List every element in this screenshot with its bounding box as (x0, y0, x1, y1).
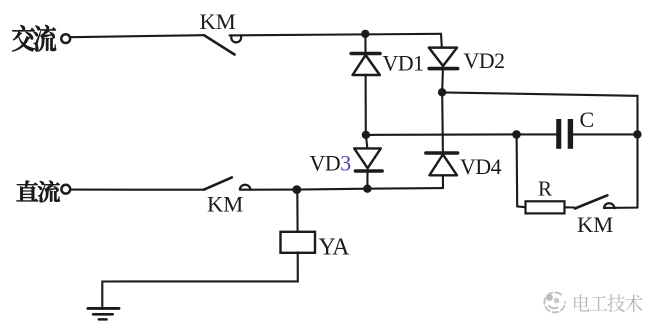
wire: node B right to top-right corner (442, 92, 637, 95)
switch KM top: fixed contact (hook below wire) (231, 35, 241, 42)
svg-text:YA: YA (319, 234, 351, 260)
node A (top of VD1) (361, 30, 369, 38)
label 直流 (17, 181, 60, 203)
switch KM top: blade (204, 35, 235, 54)
coil YA (box) (281, 232, 316, 253)
svg-text:VD4: VD4 (460, 155, 502, 179)
watermark text 电工技术 (574, 294, 642, 312)
wire: DC terminal to switch KM bottom-left (71, 189, 204, 191)
wire: DC rail from YA node to VD4 corner (297, 188, 443, 190)
node: VD3 top on middle wire (362, 131, 370, 139)
wire: switch KM top to corner above VD2 (230, 34, 442, 36)
node: capacitor-left / R branch (512, 130, 521, 139)
resistor R (box) (526, 201, 565, 213)
wire: VD3 cathode down to DC rail node (366, 171, 368, 189)
wire: VD3 node down to VD3 anode (366, 135, 367, 148)
wire: VD4 anode down to DC rail corner (442, 176, 444, 189)
svg-text:KM: KM (577, 212, 613, 237)
wire: YA node down to coil (296, 190, 298, 233)
svg-text:KM: KM (207, 192, 243, 217)
wire: AC terminal to switch KM top (71, 35, 204, 37)
wire: middle rail from VD3 node to capacitor node (366, 133, 517, 136)
svg-text:R: R (538, 177, 552, 201)
diode VD2 (triangle apex down, cathode bar bottom) (429, 48, 457, 66)
svg-text:VD3: VD3 (310, 152, 352, 176)
diode VD1 (cathode bar top, triangle apex up) (351, 52, 380, 56)
diode VD4 (cathode bar top, triangle apex up) (426, 151, 458, 155)
node B (VD2/VD4 cathode junction) (438, 88, 446, 96)
svg-text:C: C (580, 107, 595, 132)
watermark logo (544, 292, 565, 312)
wire: resistor to switch (565, 206, 575, 208)
label 交流 (12, 25, 56, 51)
node: VD3 bottom on DC rail (363, 185, 371, 193)
wire: VD1 anode down to middle node (365, 75, 367, 135)
wire: YA coil down, left, down to ground (102, 252, 297, 307)
switch KM bottom-left: fixed contact (arc above wire) (240, 185, 250, 190)
wire: VD2 cathode to node B (441, 69, 444, 93)
switch KM bottom-right: fixed contact (arc above wire) (604, 203, 614, 208)
node: right rail / capacitor wire (633, 130, 641, 138)
wire: switch to YA node (240, 189, 297, 191)
wire: right vertical rail (636, 96, 638, 208)
diode VD3 (triangle apex down, cathode bar bottom) (354, 148, 381, 168)
switch KM bottom-right: blade (575, 195, 608, 208)
terminal AC (circle) (61, 34, 70, 43)
wire: switch to right rail corner (604, 207, 638, 209)
wire: corner, top wire down to VD2 anode (440, 34, 443, 47)
svg-text:KM: KM (200, 9, 236, 34)
wire: R branch, capacitor node down to resistor (517, 135, 526, 208)
terminal DC (circle) (61, 185, 70, 194)
node: YA branch on DC rail (292, 185, 301, 194)
svg-text:VD2: VD2 (464, 49, 505, 73)
wire: node to capacitor left plate (517, 133, 557, 135)
capacitor C plates (556, 119, 561, 149)
wire: node A down to VD1 cathode (364, 34, 366, 53)
svg-text:VD1: VD1 (383, 52, 424, 76)
wire: VD4 column (node B down across middle wire to VD4) (441, 92, 444, 152)
ground (88, 307, 119, 310)
switch KM bottom-left: blade (204, 177, 232, 189)
wire: capacitor right plate to right rail node (573, 133, 638, 135)
